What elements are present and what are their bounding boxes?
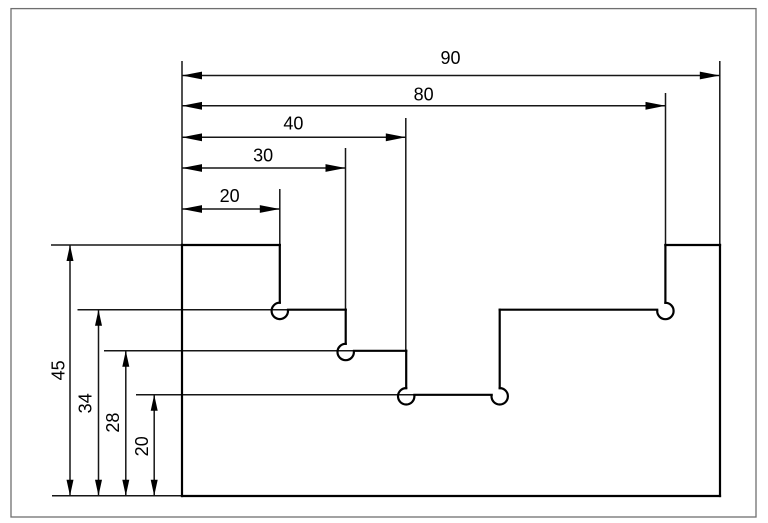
part top edge right (x 665.4-720) bbox=[665, 244, 720, 246]
part wall at x=499.7 up from relief hole 4 bbox=[499, 310, 501, 388]
svg-text:20: 20 bbox=[132, 436, 152, 456]
extension line x=665.5 (for dim 80) bbox=[665, 93, 667, 245]
dimension line 80 bbox=[182, 105, 666, 107]
extension line y=350.8 (for dim 28, passes through relief hole 2) bbox=[104, 350, 354, 352]
arrowhead dim 90 right bbox=[700, 72, 720, 80]
svg-text:30: 30 bbox=[253, 146, 273, 166]
part wall at x=665.4 up from relief hole 5 bbox=[664, 245, 666, 303]
arrowhead dim 20v top bbox=[151, 395, 158, 411]
part top edge (x 182-280) bbox=[182, 244, 280, 246]
arrowhead dim 90 left bbox=[182, 72, 202, 80]
arrowhead dim 45 bottom bbox=[67, 480, 74, 496]
extension line y=495.8 (bottom datum) bbox=[52, 495, 182, 497]
arrowhead dim 45 top bbox=[67, 245, 74, 261]
extension line y=309.7 (for dim 34, passes through relief hole 1) bbox=[78, 309, 289, 311]
extension line x=182 (left datum, above part) bbox=[181, 61, 183, 245]
arrowhead dim 30 right bbox=[326, 164, 346, 172]
arrowhead dim 28 bottom bbox=[122, 480, 129, 496]
extension line y=245 (top of part, left side for dim 45) bbox=[51, 244, 182, 246]
arrowhead dim 80 left bbox=[182, 102, 202, 110]
arrowhead dim 28 top bbox=[122, 351, 129, 367]
part right edge bbox=[719, 245, 721, 496]
arrowhead dim 40 right bbox=[386, 133, 406, 141]
part step at y=350.8 (x 354-406.2) bbox=[354, 350, 406, 352]
dimension line 20 (vertical) bbox=[153, 395, 155, 496]
svg-text:20: 20 bbox=[220, 186, 240, 206]
svg-text:28: 28 bbox=[103, 413, 123, 433]
part wall at x=406.2 down to relief hole 3 bbox=[405, 351, 407, 388]
svg-text:40: 40 bbox=[283, 113, 303, 133]
arrowhead dim 30 left bbox=[182, 164, 202, 172]
part bottom edge bbox=[182, 495, 720, 497]
part wall at x=345.7 down to relief hole 2 bbox=[345, 310, 347, 344]
part step at y=309.7 (x 499.7-657.2) bbox=[500, 309, 658, 311]
extension line x=405.8 (for dim 40) bbox=[405, 118, 407, 352]
dimension line 34 bbox=[98, 310, 100, 496]
extension line x=280 (for dim 20) bbox=[279, 189, 281, 245]
relief hole 1 (3/4 arc, open top-right) bbox=[272, 303, 288, 319]
extension line x=345.5 (for dim 30) bbox=[345, 148, 347, 310]
svg-text:45: 45 bbox=[49, 360, 69, 380]
svg-text:80: 80 bbox=[414, 85, 434, 105]
dimension line 28 bbox=[125, 351, 127, 496]
svg-text:34: 34 bbox=[76, 393, 96, 413]
relief hole 3 (3/4 arc, open top-right) bbox=[398, 388, 414, 404]
arrowhead dim 20v bottom bbox=[151, 480, 158, 496]
relief hole 2 (3/4 arc, open top-right) bbox=[338, 344, 354, 360]
arrowhead dim 34 top bbox=[95, 310, 102, 326]
part step at y=309.7 (x 288-345.7) bbox=[288, 309, 346, 311]
dimension line 20 (horizontal) bbox=[182, 208, 280, 210]
dimension line 90 bbox=[182, 75, 720, 77]
svg-text:90: 90 bbox=[440, 48, 460, 68]
relief hole 4 (3/4 arc, open top-left) bbox=[492, 388, 508, 404]
arrowhead dim 40 left bbox=[182, 133, 202, 141]
part wall at x=279.8 down to relief hole 1 bbox=[279, 245, 281, 303]
arrowhead dim 80 right bbox=[646, 102, 666, 110]
dimension line 30 bbox=[182, 167, 346, 169]
arrowhead dim 20 right bbox=[260, 205, 280, 213]
arrowhead dim 34 bottom bbox=[95, 480, 102, 496]
extension line x=719.8 (for dim 90) bbox=[719, 61, 721, 245]
extension line y=394.8 (for dim 20 vertical, passes through relief hole 3) bbox=[136, 394, 414, 396]
part left edge bbox=[181, 245, 183, 496]
relief hole 5 (3/4 arc, open top-left) bbox=[657, 303, 673, 319]
part notch floor y=394.8 (x 414.4-491.7) bbox=[414, 394, 491, 396]
dimension line 40 bbox=[182, 136, 406, 138]
arrowhead dim 20 left bbox=[182, 205, 202, 213]
dimension line 45 bbox=[69, 245, 71, 496]
